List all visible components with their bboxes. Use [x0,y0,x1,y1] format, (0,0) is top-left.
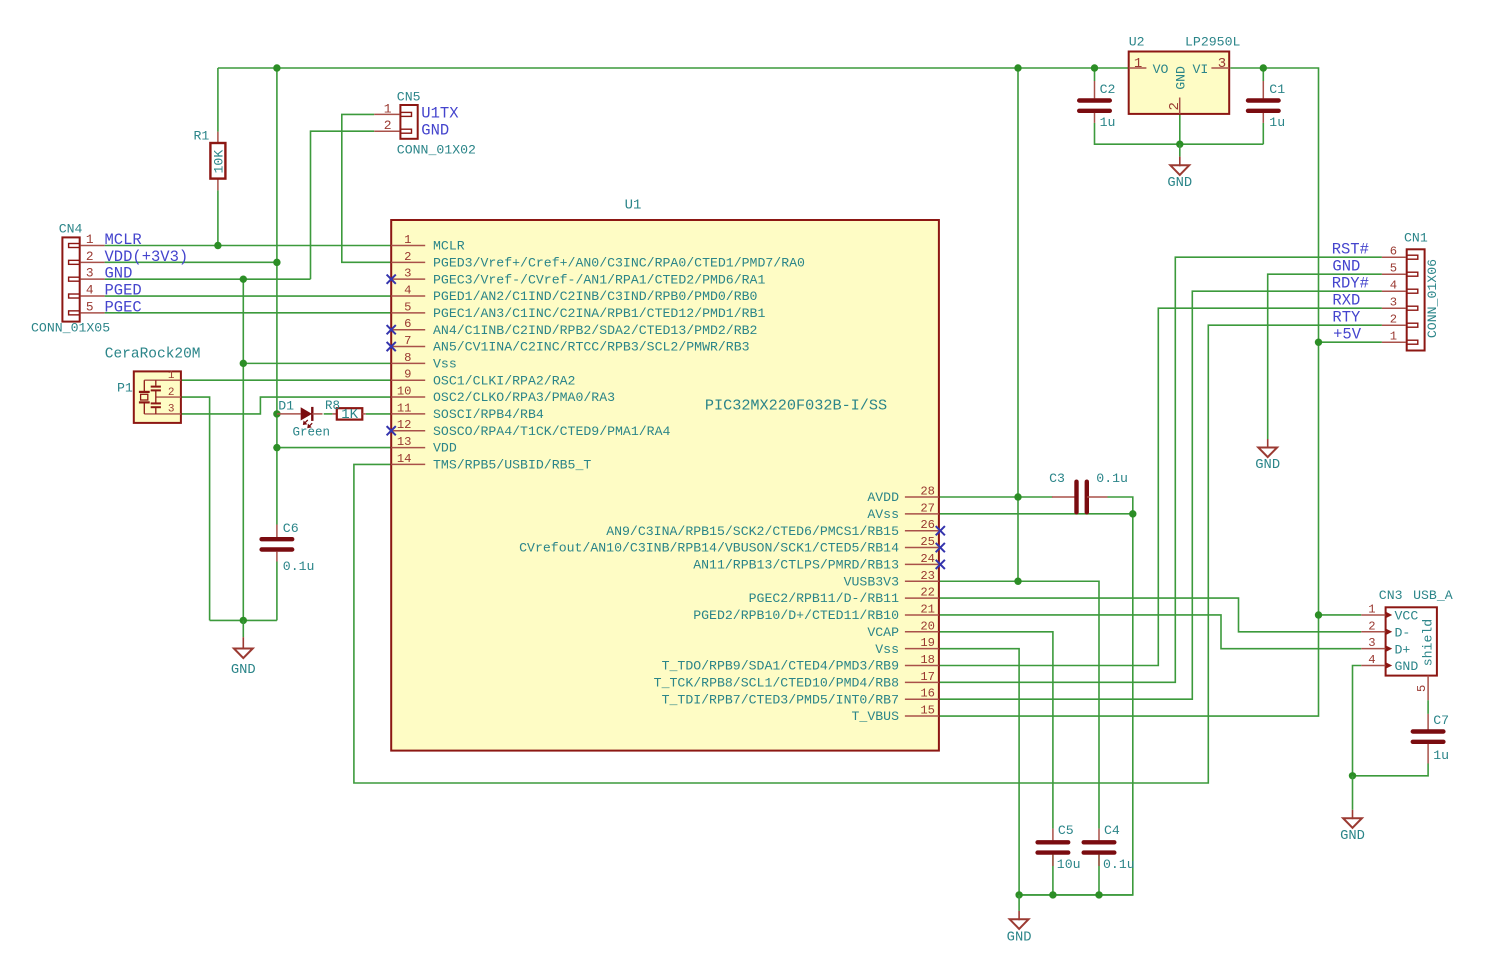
svg-text:1: 1 [384,101,392,116]
svg-text:LP2950L: LP2950L [1185,35,1240,50]
ground symbol bottom [1018,895,1020,911]
svg-text:3: 3 [1218,56,1226,72]
svg-text:VCAP: VCAP [867,625,899,640]
svg-text:D-: D- [1395,625,1411,640]
junction +5V CN1 [1315,339,1322,346]
svg-text:5: 5 [86,299,94,314]
wire CN5 pin1 to U1 pin2 [342,114,391,262]
wire C7 bottom rail [1353,764,1429,776]
svg-text:25: 25 [920,535,935,549]
svg-text:6: 6 [1390,245,1397,259]
svg-text:1: 1 [168,370,175,382]
svg-text:6: 6 [404,317,411,331]
junction D1 anode [273,410,280,417]
wire C2 bottom to U2 ground rail [1095,123,1264,144]
svg-text:GND: GND [1167,176,1192,191]
ground symbol left [242,620,244,637]
junction USB ground rail [1349,772,1356,779]
svg-text:PGED: PGED [105,282,142,300]
wire C5 top [1052,855,1054,895]
svg-text:14: 14 [397,452,412,466]
svg-text:9: 9 [404,368,411,382]
junction bottom rail gnd [1015,891,1022,898]
svg-text:GND: GND [1340,829,1365,844]
svg-text:RST#: RST# [1332,241,1369,259]
svg-text:C4: C4 [1104,823,1120,838]
wire U1 pin17 to RST# [939,257,1382,682]
svg-text:10u: 10u [1057,857,1081,872]
svg-text:C2: C2 [1100,82,1116,97]
no-connect U1 pin 26 [936,526,945,535]
svg-text:22: 22 [920,586,935,600]
U1 pin 5 PGEC1/AN3/C1INC/C2INA/RPB1/CTED12/PMD1/RB1 [391,300,765,321]
U1 pin 9 OSC1/CLKI/RPA2/RA2 [391,368,575,389]
svg-text:1: 1 [404,233,411,247]
svg-text:7: 7 [404,334,411,348]
ground symbol CN1 [1267,439,1269,449]
svg-text:AVDD: AVDD [867,490,899,505]
svg-text:GND: GND [1173,66,1188,90]
junction MCLR R1 [214,242,221,249]
svg-text:1u: 1u [1269,115,1285,130]
svg-text:5: 5 [1390,262,1397,276]
svg-text:4: 4 [404,284,411,298]
wire C1 bottom [1262,123,1264,144]
svg-text:PGED1/AN2/C1IND/C2INB/C3IND/RP: PGED1/AN2/C1IND/C2INB/C3IND/RPB0/PMD0/RB… [433,289,758,304]
wire VCAP U1 pin20 to C5 [939,632,1053,829]
LED D1 Green [277,399,330,440]
wire Vss U1 pin19 to ground [939,649,1019,895]
wire PGED CN4 pin4 to U1 pin4 [105,295,392,297]
svg-text:1u: 1u [1433,748,1449,763]
svg-text:AN11/RPB13/CTLPS/PMRD/RB13: AN11/RPB13/CTLPS/PMRD/RB13 [693,558,899,573]
svg-text:C7: C7 [1433,713,1449,728]
U1 pin 7 AN5/CV1INA/C2INC/RTCC/RPB3/SCL2/PMWR/RB3 [391,334,749,355]
U1 pin 27 AVss [867,501,939,522]
wire OSC2 jog to U1 pin10 [181,397,391,414]
svg-text:shield: shield [1421,619,1436,666]
svg-text:GND: GND [1395,659,1419,674]
junction +5V USB VCC [1315,611,1322,618]
svg-text:GND: GND [1255,458,1280,473]
svg-text:1: 1 [1368,602,1375,616]
no-connect U1 pin 3 [387,275,396,284]
junction +3V3 rail [273,64,280,71]
svg-text:0.1u: 0.1u [283,559,315,574]
wire P1 pin2 to ground rail [181,397,210,620]
svg-text:13: 13 [397,435,412,449]
wire R1 top to rail [217,68,219,132]
junction Vss pin8 [240,360,247,367]
svg-text:T_TCK/RPB8/SCL1/CTED10/PMD4/RB: T_TCK/RPB8/SCL1/CTED10/PMD4/RB8 [654,675,899,690]
svg-text:R8: R8 [325,399,340,413]
wire GND vertical left [242,279,244,620]
svg-text:T_VBUS: T_VBUS [852,709,900,724]
wire U2 pin2 to ground [1179,114,1181,144]
svg-text:20: 20 [920,619,935,633]
svg-text:P1: P1 [117,381,133,396]
ground symbol U2 [1179,144,1181,156]
svg-text:U1TX: U1TX [421,105,459,123]
svg-text:3: 3 [1368,636,1375,650]
wire C3 right to AVss [1108,497,1133,514]
svg-text:15: 15 [920,704,935,718]
connector CN1 CONN_01X06 [1382,231,1440,351]
U1 pin 12 SOSCO/RPA4/T1CK/CTED9/PMA1/RA4 [391,418,670,439]
no-connect U1 pin 25 [936,543,945,552]
wire +3V3 vertical to AVDD VUSB3V3 [1017,68,1019,581]
capacitor C3 0.1u [1049,471,1128,512]
junction bottom rail C4 [1095,891,1102,898]
svg-text:PGED3/Vref+/Cref+/AN0/C3INC/RP: PGED3/Vref+/Cref+/AN0/C3INC/RPA0/CTED1/P… [433,255,805,270]
svg-text:RXD: RXD [1332,292,1360,310]
svg-text:CONN_01X05: CONN_01X05 [31,321,110,336]
wire +5V top rail right of U2 [1230,68,1318,342]
svg-text:CN5: CN5 [397,90,421,105]
ground symbol USB [1352,776,1354,810]
wire VDD U1 pin13 [277,447,391,449]
wire ground rail bottom left [210,619,277,621]
svg-text:C1: C1 [1269,82,1285,97]
wire R8 to U1 pin11 [366,413,392,415]
svg-text:GND: GND [231,663,256,678]
svg-text:C6: C6 [283,521,299,536]
svg-text:2: 2 [1390,313,1397,327]
svg-text:D+: D+ [1395,642,1411,657]
svg-text:24: 24 [920,552,935,566]
svg-text:3: 3 [404,267,411,281]
svg-text:SOSCO/RPA4/T1CK/CTED9/PMA1/RA4: SOSCO/RPA4/T1CK/CTED9/PMA1/RA4 [433,424,670,439]
resistor R1 10K [194,129,227,191]
U1 pin 20 VCAP [867,619,939,640]
svg-text:5: 5 [404,300,411,314]
svg-text:MCLR: MCLR [433,239,465,254]
connector CN3 USB_A [1361,588,1452,700]
no-connect U1 pin 12 [387,426,396,435]
capacitor C1 1u [1248,81,1285,130]
svg-text:4: 4 [86,283,94,298]
svg-text:3: 3 [168,404,175,416]
capacitor C7 1u [1413,713,1449,764]
svg-text:CVrefout/AN10/C3INB/RPB14/VBUS: CVrefout/AN10/C3INB/RPB14/VBUSON/SCK1/CT… [519,541,899,556]
wire C7 top to USB shield pin [1427,700,1429,714]
wire VDD(+3V3) CN4 pin2 to +3V3 vertical [105,261,277,263]
svg-text:T_TDO/RPB9/SDA1/CTED4/PMD3/RB9: T_TDO/RPB9/SDA1/CTED4/PMD3/RB9 [662,659,899,674]
svg-text:R1: R1 [194,129,210,144]
IC U1 PIC32MX220F032B-I/SS [387,198,945,751]
wire C4 bottom [1098,855,1100,895]
wire +5V to CN1 pin1 [1319,341,1382,343]
wire CN1 GND to ground symbol [1268,274,1382,439]
wire GND CN4 pin3 row [105,278,311,280]
U1 pin 28 AVDD [867,485,939,506]
wire AVss to bottom ground rail [1019,514,1133,895]
wire AVss U1 pin27 [939,513,1133,515]
svg-text:2: 2 [168,387,175,399]
svg-text:Vss: Vss [875,642,899,657]
svg-text:12: 12 [397,418,412,432]
wire MCLR CN4 pin1 to U1 pin1 [105,245,392,247]
svg-text:VO: VO [1153,62,1169,77]
svg-text:10: 10 [397,385,412,399]
junction U2 ground [1176,141,1183,148]
wire OSC1 P1 pin1 to U1 pin9 [181,379,391,381]
svg-text:Vss: Vss [433,356,457,371]
U1 pin 3 PGEC3/Vref-/CVref-/AN1/RPA1/CTED2/PMD6/RA1 [391,267,765,288]
wire R1 bottom to MCLR [217,190,219,245]
junction rail AVDD branch [1014,64,1021,71]
U1 pin 11 SOSCI/RPB4/RB4 [391,401,544,422]
U1 pin 2 PGED3/Vref+/Cref+/AN0/C3INC/RPA0/CTED1/PMD7/RA0 [391,250,805,271]
svg-text:2: 2 [384,118,392,133]
svg-text:CONN_01X06: CONN_01X06 [1425,259,1440,338]
wire +5V vertical CN1 to USB VCC [1318,342,1320,615]
svg-text:21: 21 [920,602,935,616]
svg-text:AN5/CV1INA/C2INC/RTCC/RPB3/SCL: AN5/CV1INA/C2INC/RTCC/RPB3/SCL2/PMWR/RB3 [433,340,750,355]
svg-text:3: 3 [1390,296,1397,310]
svg-text:23: 23 [920,569,935,583]
svg-text:17: 17 [920,670,935,684]
svg-text:C3: C3 [1049,471,1065,486]
svg-text:GND: GND [421,121,449,139]
svg-text:U2: U2 [1129,35,1145,50]
U1 pin 21 PGED2/RPB10/D+/CTED11/RB10 [693,602,939,623]
junction GND CN4 [240,275,247,282]
svg-text:27: 27 [920,501,935,515]
wire bottom ground rail [1019,894,1133,896]
wire C6 bottom to ground rail [276,562,278,621]
wire C2 top [1094,68,1096,81]
svg-text:2: 2 [404,250,411,264]
svg-text:18: 18 [920,653,935,667]
svg-text:CeraRock20M: CeraRock20M [105,346,201,362]
no-connect U1 pin 7 [387,342,396,351]
svg-text:MCLR: MCLR [105,231,142,249]
svg-text:AN4/C1INB/C2IND/RPB2/SDA2/CTED: AN4/C1INB/C2IND/RPB2/SDA2/CTED13/PMD2/RB… [433,323,757,338]
resonator P1 CeraRock20M [105,346,201,423]
svg-text:16: 16 [920,687,935,701]
wire USB GND pin4 down [1353,666,1362,776]
junction C1 rail [1260,64,1267,71]
svg-text:AN9/C3INA/RPB15/SCK2/CTED6/PMC: AN9/C3INA/RPB15/SCK2/CTED6/PMCS1/RB15 [606,524,899,539]
svg-text:GND: GND [1007,930,1032,945]
capacitor C4 0.1u [1084,823,1135,872]
svg-text:USB_A: USB_A [1413,588,1453,603]
svg-text:T_TDI/RPB7/CTED3/PMD5/INT0/RB7: T_TDI/RPB7/CTED3/PMD5/INT0/RB7 [662,692,899,707]
wire PGEC CN4 pin5 to U1 pin5 [105,312,392,314]
capacitor C2 1u [1079,81,1115,130]
U1 pin 8 Vss [391,351,457,372]
svg-text:4: 4 [1390,279,1397,293]
junction bottom rail C5 [1049,891,1056,898]
U1 pin 14 TMS/RPB5/USBID/RB5_T [391,452,591,473]
svg-text:PIC32MX220F032B-I/SS: PIC32MX220F032B-I/SS [705,397,887,415]
wire D1 cathode link [324,413,333,415]
wire U1 pin18 to RXD [939,308,1382,665]
svg-text:10K: 10K [212,150,227,174]
svg-text:8: 8 [404,351,411,365]
U1 pin 17 T_TCK/RPB8/SCL1/CTED10/PMD4/RB8 [654,670,939,691]
junction AVDD [1014,493,1021,500]
svg-text:1K: 1K [341,407,358,423]
svg-text:PGEC3/Vref-/CVref-/AN1/RPA1/CT: PGEC3/Vref-/CVref-/AN1/RPA1/CTED2/PMD6/R… [433,272,765,287]
wire TMS U1 pin14 long route to RTY [354,325,1382,783]
no-connect U1 pin 24 [936,560,945,569]
svg-text:4: 4 [1368,653,1375,667]
svg-text:VDD(+3V3): VDD(+3V3) [105,248,189,266]
svg-text:2: 2 [1368,619,1375,633]
junction VDD CN4 [273,259,280,266]
U1 pin 16 T_TDI/RPB7/CTED3/PMD5/INT0/RB7 [662,687,939,708]
svg-text:PGED2/RPB10/D+/CTED11/RB10: PGED2/RPB10/D+/CTED11/RB10 [693,608,899,623]
svg-text:PGEC1/AN3/C1INC/C2INA/RPB1/CTE: PGEC1/AN3/C1INC/C2INA/RPB1/CTED12/PMD1/R… [433,306,765,321]
svg-text:28: 28 [920,485,935,499]
regulator U2 LP2950L [1129,35,1241,114]
U1 pin 25 CVrefout/AN10/C3INB/RPB14/VBUSON/SCK1/CTED5/RB14 [519,535,939,556]
junction AVss C3 [1129,510,1136,517]
wire +3V3 top rail [218,67,1129,69]
junction ground rail left [240,617,247,624]
U1 pin 1 MCLR [391,233,465,254]
svg-text:CN1: CN1 [1404,231,1428,246]
resistor R8 1K [325,399,366,423]
svg-text:VCC: VCC [1395,609,1419,624]
svg-text:26: 26 [920,518,935,532]
U1 pin 26 AN9/C3INA/RPB15/SCK2/CTED6/PMCS1/RB15 [606,518,939,539]
svg-text:AVss: AVss [867,507,899,522]
wire U1 pin21 to USB D+ [939,615,1361,649]
U1 pin 19 Vss [875,636,939,657]
svg-text:CN4: CN4 [59,222,83,237]
U1 pin 10 OSC2/CLKO/RPA3/PMA0/RA3 [391,385,615,406]
U1 pin 6 AN4/C1INB/C2IND/RPB2/SDA2/CTED13/PMD2/RB2 [391,317,757,338]
U1 pin 24 AN11/RPB13/CTLPS/PMRD/RB13 [693,552,939,573]
svg-text:1: 1 [86,232,94,247]
capacitor C5 10u [1038,823,1081,872]
svg-text:GND: GND [105,265,133,283]
svg-text:11: 11 [397,401,412,415]
svg-text:TMS/RPB5/USBID/RB5_T: TMS/RPB5/USBID/RB5_T [433,458,591,473]
wire AVDD U1 pin28 to C3 [939,496,1053,498]
connector CN5 CONN_01X02 [374,90,476,158]
svg-text:D1: D1 [278,399,294,414]
svg-text:VI: VI [1193,62,1209,77]
connector CN4 CONN_01X05 [31,222,110,336]
svg-text:1u: 1u [1100,115,1116,130]
svg-text:5: 5 [1415,685,1429,692]
svg-text:SOSCI/RPB4/RB4: SOSCI/RPB4/RB4 [433,407,544,422]
wire +3V3 vertical [276,68,278,525]
svg-text:CONN_01X02: CONN_01X02 [397,143,476,158]
U1 pin 23 VUSB3V3 [844,569,939,590]
wire U1 pin16 to RDY# [939,291,1382,699]
U1 pin 22 PGEC2/RPB11/D-/RB11 [749,586,939,607]
svg-text:OSC1/CLKI/RPA2/RA2: OSC1/CLKI/RPA2/RA2 [433,373,575,388]
no-connect U1 pin 6 [387,325,396,334]
capacitor C6 0.1u [262,521,315,574]
svg-text:2: 2 [1167,102,1183,110]
svg-text:1: 1 [1390,330,1397,344]
junction VUSB3V3 [1014,578,1021,585]
U1 pin 13 VDD [391,435,457,456]
svg-text:PGEC: PGEC [105,298,142,316]
U1 pin 4 PGED1/AN2/C1IND/C2INB/C3IND/RPB0/PMD0/RB0 [391,284,757,305]
svg-text:3: 3 [86,266,94,281]
svg-text:GND: GND [1332,258,1360,276]
wire +5V vertical USB VCC to T_VBUS corner [939,615,1319,716]
svg-text:Green: Green [293,426,331,440]
svg-text:VUSB3V3: VUSB3V3 [844,574,899,589]
wire CN5 pin2 to GND row [311,131,375,279]
wire Vss U1 pin8 [243,362,391,364]
junction C2 rail [1091,64,1098,71]
svg-text:VDD: VDD [433,441,457,456]
svg-text:RDY#: RDY# [1332,275,1369,293]
svg-text:C5: C5 [1058,823,1074,838]
svg-text:CN3: CN3 [1379,588,1403,603]
svg-text:0.1u: 0.1u [1103,857,1135,872]
svg-text:19: 19 [920,636,935,650]
svg-text:+5V: +5V [1333,326,1362,344]
junction VDD pin13 [273,444,280,451]
U1 pin 18 T_TDO/RPB9/SDA1/CTED4/PMD3/RB9 [662,653,939,674]
svg-text:1: 1 [1134,56,1142,72]
wire VUSB3V3 U1 pin23 to C4 [939,581,1099,828]
svg-text:U1: U1 [625,198,642,214]
svg-text:PGEC2/RPB11/D-/RB11: PGEC2/RPB11/D-/RB11 [749,591,899,606]
svg-text:2: 2 [86,249,94,264]
svg-text:OSC2/CLKO/RPA3/PMA0/RA3: OSC2/CLKO/RPA3/PMA0/RA3 [433,390,615,405]
wire C1 top [1262,68,1264,81]
U1 pin 15 T_VBUS [852,704,939,725]
wire U1 pin22 to USB D- [939,598,1361,632]
wire USB VCC stub to +5V [1319,614,1362,616]
svg-text:RTY: RTY [1332,309,1361,327]
svg-text:0.1u: 0.1u [1096,471,1128,486]
